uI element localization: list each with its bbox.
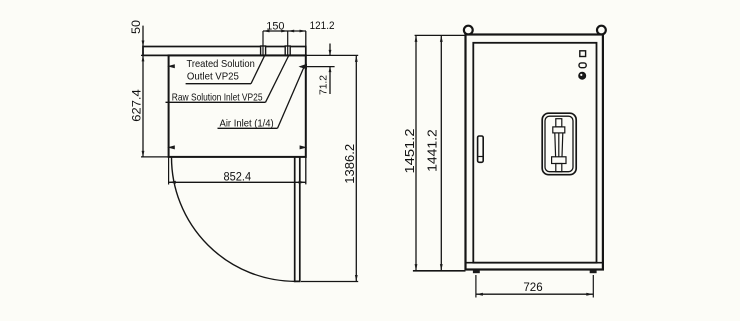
svg-text:71.2: 71.2 <box>318 75 330 95</box>
svg-text:1386.2: 1386.2 <box>343 144 357 184</box>
svg-text:Air Inlet (1/4): Air Inlet (1/4) <box>220 117 274 129</box>
svg-text:1451.2: 1451.2 <box>403 128 417 173</box>
svg-text:Outlet VP25: Outlet VP25 <box>187 70 239 82</box>
svg-text:Raw Solution Inlet VP25: Raw Solution Inlet VP25 <box>172 91 263 103</box>
svg-text:150: 150 <box>266 20 284 32</box>
svg-text:627.4: 627.4 <box>130 89 144 122</box>
svg-text:121.2: 121.2 <box>310 20 335 32</box>
svg-text:Treated Solution: Treated Solution <box>187 58 255 70</box>
svg-text:726: 726 <box>523 280 543 294</box>
svg-text:1441.2: 1441.2 <box>426 129 440 172</box>
svg-text:50: 50 <box>129 20 143 34</box>
svg-text:852.4: 852.4 <box>224 170 252 184</box>
